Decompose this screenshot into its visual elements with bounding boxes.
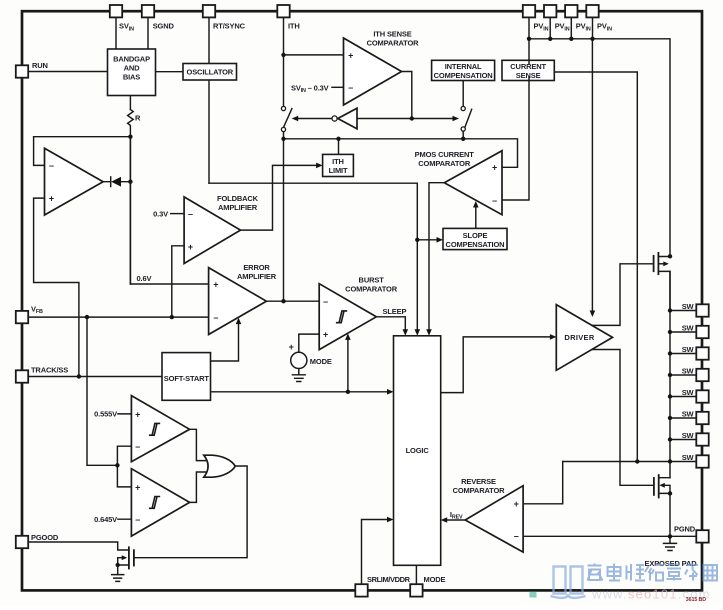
svg-text:AND: AND xyxy=(124,64,141,73)
svg-text:OSCILLATOR: OSCILLATOR xyxy=(187,68,234,77)
svg-text:SW: SW xyxy=(682,302,695,311)
svg-text:–: – xyxy=(135,515,140,525)
svg-text:SW: SW xyxy=(682,345,695,354)
svg-text:SW: SW xyxy=(682,324,695,333)
svg-text:SW: SW xyxy=(682,453,695,462)
svg-text:AMPLIFIER: AMPLIFIER xyxy=(218,203,258,212)
svg-text:SENSE: SENSE xyxy=(516,71,541,80)
svg-text:PMOS CURRENT: PMOS CURRENT xyxy=(415,150,475,159)
svg-text:SLOPE: SLOPE xyxy=(463,231,488,240)
svg-text:COMPARATOR: COMPARATOR xyxy=(453,486,506,495)
svg-text:BURST: BURST xyxy=(359,275,385,284)
svg-text:R: R xyxy=(135,114,141,123)
svg-text:FOLDBACK: FOLDBACK xyxy=(217,194,259,203)
svg-text:+: + xyxy=(135,482,140,492)
svg-text:+: + xyxy=(323,330,328,340)
svg-text:BIAS: BIAS xyxy=(123,73,140,82)
svg-text:0.555V: 0.555V xyxy=(94,410,117,419)
svg-text:+: + xyxy=(188,242,193,252)
svg-text:–: – xyxy=(323,296,328,306)
svg-text:SW: SW xyxy=(682,367,695,376)
svg-text:SW: SW xyxy=(682,410,695,419)
svg-text:0.3V: 0.3V xyxy=(153,209,168,218)
svg-text:+: + xyxy=(49,194,54,204)
svg-text:COMPARATOR: COMPARATOR xyxy=(345,284,398,293)
svg-text:PGND: PGND xyxy=(674,525,696,534)
svg-text:–: – xyxy=(514,531,519,541)
svg-text:AMPLIFIER: AMPLIFIER xyxy=(237,272,277,281)
svg-text:3615 BD: 3615 BD xyxy=(686,597,706,603)
svg-text:SGND: SGND xyxy=(153,22,175,31)
svg-text:0.6V: 0.6V xyxy=(137,274,152,283)
svg-text:–: – xyxy=(188,209,193,219)
svg-text:REVERSE: REVERSE xyxy=(461,477,496,486)
svg-text:–: – xyxy=(348,83,353,93)
svg-text:RT/SYNC: RT/SYNC xyxy=(213,22,246,31)
svg-text:0.645V: 0.645V xyxy=(94,515,117,524)
svg-text:SOFT-START: SOFT-START xyxy=(164,374,210,383)
svg-text:SW: SW xyxy=(682,388,695,397)
svg-text:+: + xyxy=(289,342,294,352)
svg-text:–: – xyxy=(135,442,140,452)
svg-text:–: – xyxy=(213,313,218,323)
svg-text:COMPARATOR: COMPARATOR xyxy=(418,159,471,168)
svg-text:LIMIT: LIMIT xyxy=(329,166,348,175)
svg-text:INTERNAL: INTERNAL xyxy=(445,62,482,71)
svg-text:+: + xyxy=(492,163,497,173)
svg-text:LOGIC: LOGIC xyxy=(406,446,430,455)
svg-text:PGOOD: PGOOD xyxy=(31,533,59,542)
svg-text:MODE: MODE xyxy=(424,575,446,584)
svg-text:TRACK/SS: TRACK/SS xyxy=(31,365,68,374)
svg-text:COMPENSATION: COMPENSATION xyxy=(446,240,505,249)
svg-text:ITH: ITH xyxy=(288,22,300,31)
svg-text:+: + xyxy=(135,409,140,419)
svg-text:SRLIM/VDDR: SRLIM/VDDR xyxy=(367,575,411,584)
svg-text:CURRENT: CURRENT xyxy=(510,62,546,71)
svg-text:+: + xyxy=(348,50,353,60)
svg-text:–: – xyxy=(492,195,497,205)
svg-text:COMPENSATION: COMPENSATION xyxy=(434,71,493,80)
svg-text:SW: SW xyxy=(682,431,695,440)
svg-text:–: – xyxy=(49,161,54,171)
svg-text:MODE: MODE xyxy=(310,357,332,366)
svg-text:+: + xyxy=(514,499,519,509)
svg-text:COMPARATOR: COMPARATOR xyxy=(367,38,420,47)
svg-text:ITH: ITH xyxy=(332,157,344,166)
svg-text:RUN: RUN xyxy=(32,61,48,70)
svg-text:ERROR: ERROR xyxy=(243,263,270,272)
svg-text:+: + xyxy=(213,279,218,289)
svg-text:SLEEP: SLEEP xyxy=(383,307,407,316)
svg-text:ITH SENSE: ITH SENSE xyxy=(373,29,411,38)
svg-text:DRIVER: DRIVER xyxy=(564,333,594,342)
svg-text:BANDGAP: BANDGAP xyxy=(113,55,150,64)
